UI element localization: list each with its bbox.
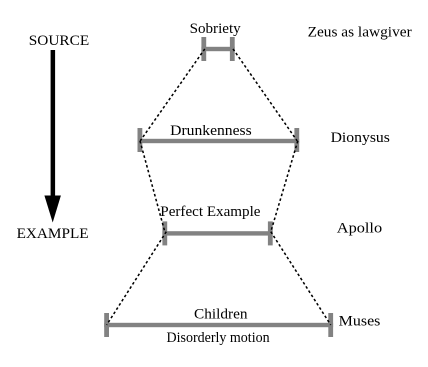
svg-text:SOURCE: SOURCE	[29, 33, 89, 49]
svg-text:Muses: Muses	[339, 314, 381, 330]
svg-text:Zeus as lawgiver: Zeus as lawgiver	[308, 25, 412, 41]
svg-text:EXAMPLE: EXAMPLE	[17, 226, 89, 242]
svg-text:Drunkenness: Drunkenness	[170, 123, 252, 139]
svg-text:Sobriety: Sobriety	[190, 21, 242, 37]
svg-text:Apollo: Apollo	[337, 221, 382, 237]
svg-text:Disorderly motion: Disorderly motion	[167, 330, 271, 346]
svg-text:Children: Children	[194, 307, 248, 323]
svg-text:Dionysus: Dionysus	[331, 130, 390, 146]
svg-text:Perfect Example: Perfect Example	[160, 204, 261, 220]
